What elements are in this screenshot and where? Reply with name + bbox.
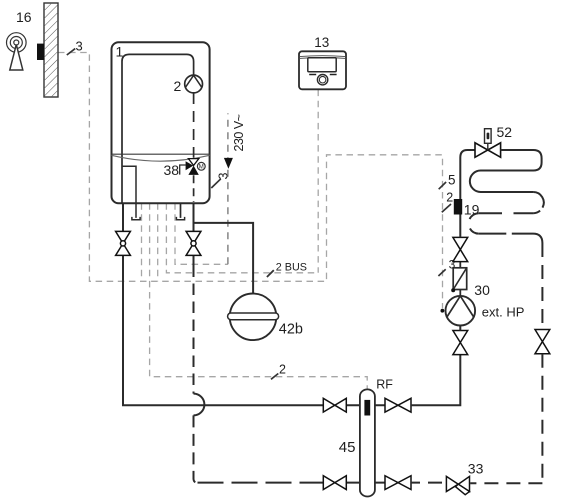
svg-text:5: 5 xyxy=(448,173,456,188)
svg-text:38: 38 xyxy=(164,162,180,178)
svg-text:2: 2 xyxy=(279,362,286,376)
svg-text:30: 30 xyxy=(474,282,490,298)
svg-text:45: 45 xyxy=(339,439,356,456)
svg-text:2 BUS: 2 BUS xyxy=(276,261,307,273)
svg-text:52: 52 xyxy=(497,124,513,140)
svg-text:230 V~: 230 V~ xyxy=(232,114,246,151)
svg-text:33: 33 xyxy=(468,461,484,477)
svg-text:2: 2 xyxy=(174,78,182,94)
svg-text:ext. HP: ext. HP xyxy=(482,305,525,320)
svg-text:M: M xyxy=(199,164,204,170)
svg-text:3: 3 xyxy=(76,39,83,54)
svg-text:3: 3 xyxy=(217,173,231,180)
svg-text:42b: 42b xyxy=(279,322,303,338)
svg-text:2: 2 xyxy=(446,191,453,205)
svg-text:13: 13 xyxy=(314,35,329,50)
svg-text:16: 16 xyxy=(16,9,32,25)
svg-text:RF: RF xyxy=(376,378,393,392)
